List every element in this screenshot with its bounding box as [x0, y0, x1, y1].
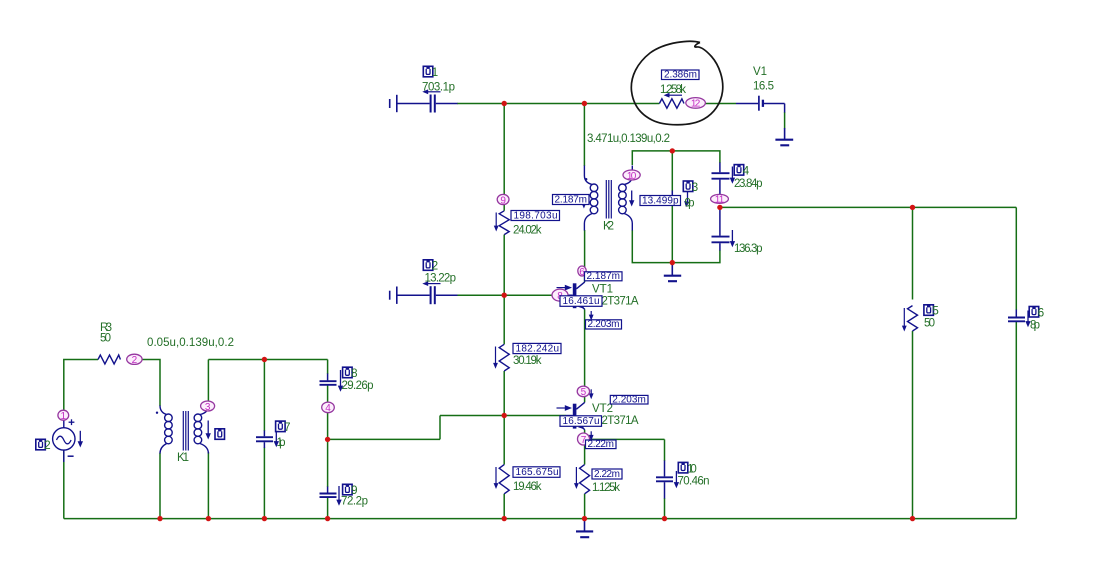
svg-text:2: 2 [44, 440, 50, 452]
wire main column node9 lead [503, 205, 505, 211]
svg-text:182.242u: 182.242u [516, 344, 560, 355]
svg-text:3: 3 [692, 182, 698, 194]
capacitor C2 open stub tick [389, 291, 391, 300]
node 1 [58, 410, 69, 420]
svg-text:703.1p: 703.1p [422, 82, 455, 94]
value box 2.203m (VT1 emitter) [586, 320, 622, 329]
resistor R3 50 zigzag (source) [98, 355, 120, 364]
wire VT1 base row [504, 294, 566, 296]
wire VT1 emitter to VT2 collector [584, 309, 586, 402]
wire bottom rail [64, 518, 1017, 520]
capacitor C1 label arrow [427, 91, 441, 93]
node 7 [578, 433, 590, 445]
resistor R6 current arrow [495, 467, 497, 484]
transistor VT2 base current arrow [557, 407, 567, 409]
transistor VT1 emitter current arrow [590, 311, 592, 316]
svg-text:8: 8 [351, 368, 357, 380]
junction bottom rail C7 [262, 516, 267, 521]
svg-text:50: 50 [924, 318, 935, 330]
icon C6 [1029, 307, 1039, 318]
node 8 [552, 289, 568, 301]
wire C7 branch lower [263, 448, 265, 519]
battery V1 right plate [762, 100, 764, 107]
junction node4 row [325, 437, 330, 442]
wire R50 branch lower [912, 331, 914, 519]
wire K1 secondary rail to C8 [208, 359, 327, 361]
node 6 [578, 266, 586, 276]
junction C7 top [262, 357, 267, 362]
transistor VT1 base current arrow [557, 287, 567, 289]
svg-text:0.05u,0.139u,0.2: 0.05u,0.139u,0.2 [147, 337, 234, 349]
capacitor C9 current arrow [338, 486, 340, 501]
wire C9 to bottom rail [327, 497, 329, 519]
source V2 sine [57, 436, 72, 444]
capacitor C2 open stub bar [396, 287, 398, 304]
node 11 [711, 194, 729, 203]
svg-text:9: 9 [351, 485, 357, 497]
svg-text:1: 1 [61, 411, 67, 422]
icon C4 [734, 165, 744, 176]
transformer K2 secondary winding [624, 166, 632, 185]
resistor R5 50 zigzag (right) [908, 306, 918, 331]
svg-text:16.5: 16.5 [753, 81, 774, 93]
transformer K2 primary current arrow (under box) [583, 197, 585, 204]
transformer K1 phase dot [156, 412, 158, 414]
transistor VT2 emitter current arrow [590, 431, 592, 436]
capacitor C5 136.3p plates [712, 236, 730, 238]
value box 182.242u (R4) [513, 343, 561, 353]
svg-text:2T371A: 2T371A [602, 415, 639, 427]
svg-text:K1: K1 [177, 452, 189, 464]
ground at V1 [784, 128, 786, 139]
capacitor C4 23.84p plates [712, 172, 730, 174]
transformer K2 secondary current arrow [631, 191, 633, 202]
junction VT2 base row [502, 413, 507, 418]
svg-text:16.567u: 16.567u [563, 416, 600, 427]
junction bottom rail main column [502, 516, 507, 521]
source V2 plus sign [69, 421, 75, 423]
capacitor C5 current arrow [731, 230, 733, 242]
icon C8 [343, 367, 353, 378]
svg-text:24.02k: 24.02k [513, 225, 542, 237]
icon K1 [215, 429, 225, 440]
svg-text:136.3p: 136.3p [734, 243, 763, 255]
junction main column / top rail [502, 101, 507, 106]
capacitor C2 plates [430, 286, 432, 304]
wire top rail C1 to R1 [457, 103, 659, 105]
node 3 [201, 401, 215, 411]
transistor VT2 base lead [566, 415, 573, 417]
wire R1.125k to bottom rail [584, 494, 586, 519]
svg-text:2.203m: 2.203m [612, 394, 646, 405]
wire C10 branch upper [664, 439, 666, 461]
icon C3 [683, 181, 693, 192]
capacitor C4 leads [719, 163, 721, 173]
capacitor C3 9p plates (hidden behind value box) [664, 196, 680, 198]
hand-drawn highlight ellipse around R1 [631, 41, 722, 124]
svg-text:12: 12 [691, 99, 701, 110]
wire K1 primary bottom to rail [159, 453, 161, 519]
transistor VT1 base bar [573, 283, 577, 308]
junction bottom rail K1 secondary [206, 516, 211, 521]
capacitor C10 70.46n plates [656, 476, 673, 478]
resistor R6 19.46k zigzag [499, 465, 509, 494]
icon V2 [36, 439, 46, 450]
capacitor C1 open stub tick [389, 99, 391, 108]
capacitor C7 1p plates [256, 436, 273, 438]
svg-text:3.471u,0.139u,0.2: 3.471u,0.139u,0.2 [587, 133, 670, 145]
wire C3 branch lower [671, 201, 673, 262]
node 10 [623, 170, 640, 180]
svg-text:50: 50 [100, 333, 111, 345]
svg-text:1p: 1p [277, 437, 286, 449]
transformer K1 secondary winding [200, 406, 208, 415]
svg-text:1.125k: 1.125k [592, 482, 620, 494]
svg-text:10: 10 [627, 171, 637, 182]
icon C7 [276, 421, 286, 432]
junction bottom rail R50 [910, 516, 915, 521]
battery V1 left plate [758, 96, 760, 111]
svg-text:72.2p: 72.2p [341, 496, 368, 508]
capacitor C8 current arrow [340, 370, 342, 387]
junction C3 / K2 secondary top rail [670, 148, 675, 153]
wire C7 branch upper [263, 360, 265, 432]
ground at K2 secondary rail [671, 263, 673, 275]
svg-text:2.187m: 2.187m [555, 195, 588, 206]
wire C3 branch upper [671, 151, 673, 191]
junction K2 primary / top rail [582, 101, 587, 106]
capacitor C3 current arrow [687, 192, 689, 203]
value box 16.461u (VT1 base) [560, 296, 602, 307]
svg-text:9p: 9p [685, 198, 695, 210]
capacitor C6 8p plates (right) [1008, 317, 1025, 319]
svg-text:4: 4 [743, 166, 750, 178]
wire main column top [503, 104, 505, 196]
svg-text:30.19k: 30.19k [513, 355, 542, 367]
svg-text:2: 2 [132, 355, 138, 366]
wire node4 step vertical [439, 416, 441, 440]
transformer K2 phase dot [585, 178, 587, 180]
wire node11 to right branch [720, 206, 1016, 208]
transistor VT2 emitter with arrow [576, 423, 584, 430]
svg-text:70.46n: 70.46n [678, 476, 710, 488]
resistor R7 1.125k zigzag [580, 465, 590, 494]
wire node4 to step [328, 438, 440, 440]
value box 198.703u (R2) [511, 211, 560, 221]
svg-text:2.386m: 2.386m [664, 70, 697, 81]
svg-text:2.22m: 2.22m [594, 469, 620, 480]
capacitor C1 plates [430, 95, 432, 113]
svg-text:198.703u: 198.703u [514, 211, 558, 222]
svg-text:K2: K2 [603, 221, 614, 233]
wire C8 to node4 [327, 385, 329, 403]
transformer K2 primary winding [584, 166, 592, 185]
node 5 [577, 386, 589, 397]
svg-text:9: 9 [500, 195, 506, 206]
wire R50 branch upper [912, 207, 914, 299]
svg-text:2T371A: 2T371A [602, 296, 639, 308]
node 4 [322, 402, 335, 413]
junction node11 / right branch [717, 205, 722, 210]
value box 2.22m (VT2 emitter) [586, 440, 617, 449]
wire C 8p branch upper [1015, 207, 1017, 310]
junction bottom rail C10 [662, 516, 667, 521]
svg-text:19.46k: 19.46k [513, 481, 542, 493]
icon R5 [924, 305, 934, 316]
transformer K2 core [605, 180, 607, 219]
wire VT2 base row [440, 415, 566, 417]
svg-text:VT1: VT1 [592, 284, 613, 296]
wire VT2 emitter down [584, 430, 586, 465]
wire source V2 top [64, 360, 98, 411]
wire main column between R30.19k and R19.46k [503, 371, 505, 465]
node 2 [127, 354, 142, 364]
value box 2.187m (VT1 collector) [585, 272, 623, 281]
wire VT2 emitter row to C10 [585, 438, 665, 440]
svg-text:13.499p: 13.499p [642, 196, 679, 207]
wire K2 primary top [583, 104, 585, 167]
svg-text:5: 5 [581, 387, 587, 398]
svg-text:29.26p: 29.26p [342, 380, 374, 392]
svg-text:5: 5 [932, 306, 938, 318]
svg-text:V1: V1 [753, 66, 767, 78]
capacitor C9 72.2p plates [320, 493, 337, 495]
wire C 8p branch lower [1015, 321, 1017, 518]
wire C10 branch lower [664, 498, 666, 519]
transistor VT1 collector [576, 282, 584, 289]
transistor VT1 emitter with arrow [576, 302, 584, 309]
capacitor C1 open stub bar [396, 95, 398, 112]
value box 16.567u (VT2 base) [560, 416, 602, 427]
transistor VT1 base lead [566, 294, 573, 296]
value box 2.22m (R7) [592, 469, 622, 479]
value box 2.187m (K2 primary) [553, 195, 590, 205]
wire main column between R24.02k and R30.19k [503, 235, 505, 345]
wire C8 branch upper [327, 360, 329, 375]
value box 165.675u (R6) [513, 467, 560, 478]
ground at bottom rail [584, 519, 586, 531]
wire K2 secondary top rail [632, 151, 720, 165]
node 5 current arrow [590, 389, 592, 395]
svg-text:1.258k: 1.258k [660, 84, 686, 96]
value box 2.203m (VT2 collector) [610, 395, 648, 404]
transformer K1 secondary current arrow [207, 421, 209, 435]
icon C1 [423, 66, 433, 77]
capacitor C2 label arrow [427, 283, 441, 285]
resistor R5 current arrow [903, 308, 905, 327]
transformer K1 primary winding [160, 406, 167, 415]
wire C2 to main column [457, 294, 504, 296]
capacitor C1 left lead [397, 103, 430, 105]
icon C9 [343, 484, 353, 495]
source V2 minus sign [68, 455, 74, 457]
transformer K1 core [182, 411, 184, 451]
svg-text:23.84p: 23.84p [734, 178, 763, 190]
junction bottom rail ground [582, 516, 587, 521]
svg-text:16.461u: 16.461u [563, 296, 600, 307]
battery V1 leads [736, 103, 758, 105]
resistor R2 24.02k zigzag [499, 211, 509, 235]
svg-text:2.22m: 2.22m [588, 439, 615, 450]
resistor R4 30.19k zigzag [499, 344, 509, 371]
svg-text:165.675u: 165.675u [516, 467, 559, 478]
wire node4 to C9 [327, 413, 329, 488]
capacitor C2 right lead [436, 294, 458, 296]
icon C10 [678, 462, 688, 473]
transistor VT2 base bar [573, 404, 577, 429]
resistor R2 current arrow [495, 213, 497, 227]
resistor R4 current arrow [495, 347, 497, 364]
wire K2 secondary bottom rail [632, 230, 720, 263]
wire K1 secondary top [207, 360, 209, 402]
value box 2.386m (R1) [662, 70, 700, 80]
wire main column R19.46k to bottom rail [503, 494, 505, 519]
svg-text:2.203m: 2.203m [588, 319, 620, 330]
svg-text:13.22p: 13.22p [425, 273, 457, 285]
capacitor C10 current arrow [675, 471, 677, 483]
svg-text:1: 1 [432, 67, 438, 79]
capacitor C7 current arrow [275, 431, 277, 443]
junction C2 / VT1 base row [502, 293, 507, 298]
resistor R1 1.258k zigzag (top) [659, 99, 684, 108]
svg-text:6: 6 [1038, 307, 1044, 319]
wire node2 to K1 primary [142, 360, 160, 407]
wire node12 to V1 [705, 103, 736, 105]
source V2 leads [63, 420, 65, 428]
svg-text:4: 4 [325, 403, 331, 414]
source V2 current arrow [79, 431, 81, 443]
transistor VT2 collector [576, 402, 584, 409]
wire V1 ground drop [784, 112, 786, 129]
junction bottom rail K1 primary [157, 516, 162, 521]
value box 13.499p (C3) [640, 196, 681, 206]
resistor R7 current arrow [575, 467, 577, 484]
junction C3 / K2 secondary bottom rail [670, 260, 675, 265]
capacitor C4 current arrow [731, 167, 733, 179]
svg-text:10: 10 [687, 463, 697, 475]
resistor R1 label arrow [668, 94, 682, 96]
capacitor C5 leads [719, 207, 721, 235]
svg-text:11: 11 [715, 195, 725, 206]
junction bottom rail C9 [325, 516, 330, 521]
svg-text:2: 2 [432, 261, 438, 273]
source V2 circle [53, 428, 75, 450]
capacitor C2 left lead [397, 294, 430, 296]
capacitor C8 29.26p plates [320, 380, 337, 382]
svg-text:7: 7 [284, 422, 290, 434]
junction R50 top [910, 205, 915, 210]
icon C2 [423, 260, 433, 271]
node 9 [497, 194, 509, 204]
wire source V2 bottom [63, 451, 65, 519]
capacitor C6 current arrow [1027, 311, 1029, 323]
capacitor C1 right lead [436, 103, 458, 105]
svg-text:8p: 8p [1030, 320, 1040, 332]
node 12 [686, 98, 706, 109]
wire K1 secondary bottom to rail [207, 452, 209, 519]
svg-text:3: 3 [205, 402, 211, 413]
wire K2 primary bottom to VT1 collector [584, 230, 586, 282]
svg-text:2.187m: 2.187m [587, 271, 621, 282]
